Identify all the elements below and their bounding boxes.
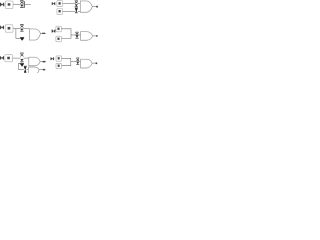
node label (f) bbox=[51, 57, 54, 60]
wire A with bend bbox=[61, 29, 71, 35]
source block A bbox=[56, 56, 62, 61]
wire bbox=[78, 3, 81, 5]
wire bbox=[13, 28, 20, 30]
ground bbox=[19, 62, 24, 65]
output wire bbox=[92, 6, 96, 8]
source block bbox=[5, 1, 13, 8]
source block bbox=[5, 25, 13, 32]
wire bbox=[13, 4, 20, 6]
wire B with bend bbox=[62, 62, 71, 66]
source block A bbox=[57, 1, 63, 7]
valve V1 bbox=[20, 0, 23, 2]
wire bbox=[78, 34, 80, 36]
node label (d) bbox=[52, 30, 55, 33]
wire bbox=[78, 10, 81, 12]
output terminal bbox=[96, 6, 98, 8]
AND gate G7 bbox=[28, 67, 39, 75]
output wire bbox=[40, 61, 46, 63]
wire bbox=[79, 61, 81, 63]
output wire bbox=[41, 32, 47, 34]
AND gate G5 bbox=[29, 57, 40, 66]
output wire bbox=[39, 69, 43, 71]
node label (e) bbox=[0, 56, 4, 59]
AND gate G6 bbox=[81, 59, 93, 68]
AND gate G4 bbox=[81, 32, 93, 41]
output wire bbox=[93, 35, 97, 37]
source block B bbox=[56, 36, 62, 42]
wire bbox=[71, 34, 76, 36]
wire bbox=[27, 68, 29, 70]
source block B bbox=[57, 9, 63, 15]
source block bbox=[5, 55, 13, 62]
wire A bbox=[63, 3, 75, 5]
wire A with bend bbox=[62, 58, 71, 61]
node label (c) bbox=[0, 26, 4, 29]
output terminal bbox=[96, 63, 98, 65]
wire B with bend bbox=[61, 35, 71, 38]
source block B bbox=[56, 63, 62, 68]
ground bbox=[20, 36, 24, 39]
wire bbox=[24, 57, 29, 59]
node label (b) bbox=[52, 2, 55, 5]
valve V9 bbox=[24, 65, 27, 68]
wire bbox=[13, 57, 21, 59]
valve V5 bbox=[75, 31, 78, 34]
output terminal bbox=[43, 69, 45, 71]
wire bbox=[25, 4, 31, 6]
valve V3 bbox=[75, 7, 78, 10]
AND gate G2 bbox=[80, 1, 92, 12]
valve V4 bbox=[20, 23, 23, 26]
node label (a) bbox=[0, 3, 4, 6]
output terminal bbox=[42, 33, 45, 34]
output terminal bbox=[43, 61, 46, 63]
valve V2 bbox=[75, 0, 78, 2]
AND gate G3 bbox=[29, 29, 40, 40]
wire bbox=[24, 28, 30, 30]
branch wire to circuit 7 bbox=[18, 63, 23, 69]
ground branch bbox=[16, 29, 20, 39]
ground stub bbox=[21, 61, 23, 64]
output wire bbox=[92, 62, 96, 64]
source block A bbox=[56, 26, 62, 32]
terminal bar bbox=[23, 1, 26, 8]
wire bbox=[71, 61, 77, 63]
wire B bbox=[63, 10, 75, 12]
valve V7 bbox=[20, 52, 23, 55]
valve V8 bbox=[76, 57, 79, 60]
output terminal bbox=[96, 35, 98, 37]
